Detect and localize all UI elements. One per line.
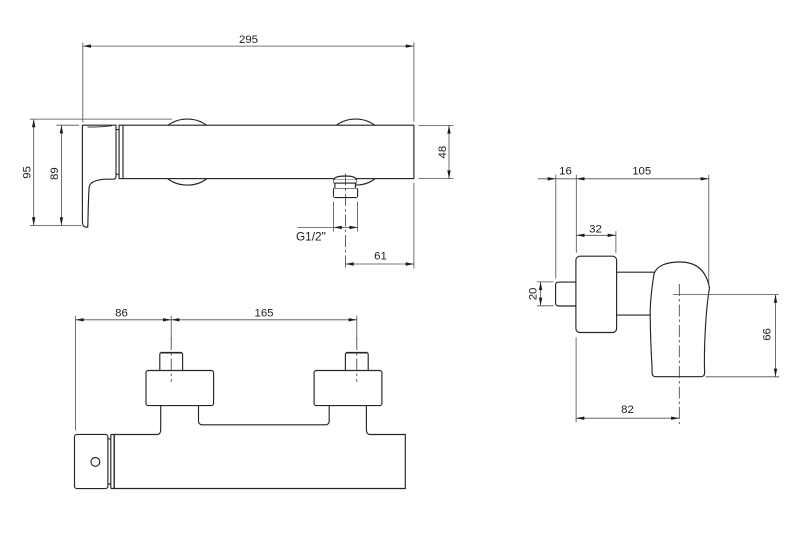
dim 86 / 165 — [76, 316, 357, 431]
outlet dome — [334, 176, 357, 180]
escutcheon block — [576, 256, 617, 332]
svg-text:89: 89 — [49, 167, 61, 180]
screw hole — [91, 458, 100, 467]
svg-text:48: 48 — [437, 146, 449, 159]
inlet stub right — [345, 353, 368, 371]
outlet nut G1/2 — [334, 189, 358, 198]
dim 295 — [83, 43, 414, 123]
dim 61 — [346, 183, 414, 269]
mounting escutcheon circle left — [154, 119, 220, 185]
svg-text:82: 82 — [621, 404, 634, 416]
G1/2 leader — [298, 202, 358, 232]
svg-text:66: 66 — [761, 328, 773, 341]
svg-text:105: 105 — [632, 166, 651, 178]
svg-text:G1/2": G1/2" — [296, 230, 326, 244]
dimension texts — [22, 34, 774, 416]
inlet stub left top edge — [161, 352, 182, 354]
mounting block right — [314, 371, 382, 406]
svg-text:32: 32 — [589, 223, 602, 235]
arrowheads — [32, 44, 777, 420]
svg-text:86: 86 — [115, 307, 128, 319]
dim 82 — [576, 338, 679, 423]
collar lines — [111, 435, 114, 489]
dim 95 ext — [30, 119, 172, 225]
handle end square — [75, 434, 108, 488]
body bottom line — [617, 314, 651, 316]
joint collar recessed steps — [116, 130, 119, 175]
mounting block left — [146, 371, 214, 406]
dim 48 — [419, 125, 454, 178]
body bar with mounting necks — [114, 406, 405, 489]
outlet ring band — [334, 180, 357, 183]
svg-text:295: 295 — [239, 34, 258, 46]
handle lever — [82, 125, 116, 227]
dim 66 — [673, 295, 779, 377]
dim 89 ext — [57, 125, 80, 225]
dim 20 — [537, 282, 554, 306]
dim 32 — [576, 231, 616, 253]
svg-text:95: 95 — [22, 166, 34, 179]
outlet centerline — [345, 174, 347, 269]
dim 16 / 105 — [538, 175, 709, 287]
faucet body rectangle — [119, 125, 414, 178]
joint collar steps — [108, 439, 111, 484]
body left inner line — [122, 125, 124, 178]
inlet stub right top edge — [346, 352, 367, 354]
svg-text:20: 20 — [528, 288, 540, 301]
body top line — [617, 271, 656, 273]
wall inlet stub — [556, 282, 580, 306]
knob centerline — [678, 284, 680, 424]
handle top surface line — [88, 126, 113, 127]
handle knob profile — [650, 262, 709, 377]
svg-text:165: 165 — [254, 307, 273, 319]
outlet neck — [335, 183, 356, 189]
svg-text:61: 61 — [374, 251, 387, 263]
mounting escutcheon circle right — [323, 119, 389, 185]
svg-text:16: 16 — [559, 166, 572, 178]
stub centerlines — [171, 338, 357, 382]
inlet stub left — [160, 353, 183, 371]
